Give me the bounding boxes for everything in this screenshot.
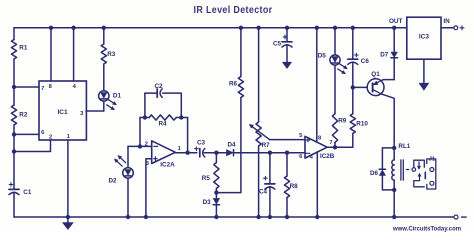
wire pin8 IC2B [316,28,318,142]
wire relay bottom to rail [393,190,395,217]
wire C5 to ground arrow [286,45,288,63]
svg-text:Q1: Q1 [371,71,380,78]
wire IC3 ground [423,59,425,83]
diode D7 [380,51,397,58]
wire pin8 [50,28,52,81]
node D2 ground [126,215,130,219]
wire D2 to ground rail [127,178,129,217]
wire left rail upper [13,28,15,40]
ground arrow IC3 [419,83,429,90]
relay NC contact [430,168,434,172]
ground arrow C5 [283,62,292,68]
node C4 top [268,151,272,155]
wire rail to C6 [352,28,354,59]
wire pin2 [14,140,51,152]
svg-text:C1: C1 [23,189,32,196]
svg-text:R4: R4 [158,120,167,127]
svg-text:C5: C5 [273,40,282,47]
capacitor C2 [154,83,163,97]
relay coil RL1 [392,160,403,180]
svg-text:7: 7 [329,140,332,146]
wire pin4 IC2B [316,152,318,217]
wire rail to R3 [103,28,105,44]
node pin1 ground [66,215,70,219]
LED D1 [99,91,122,101]
node C5 rail [285,26,289,30]
svg-text:R7: R7 [262,142,271,149]
wire R10 to node [335,134,353,148]
title [194,5,273,16]
wire D4 to IC2B pin6 [234,152,306,154]
wire D6 branch bottom [382,176,394,190]
LED D2 arrows [114,156,125,167]
svg-text:7: 7 [41,86,44,92]
diode D6 [370,169,386,177]
svg-text:IN: IN [443,18,450,25]
wire bottom ground rail [14,216,454,218]
svg-text:R2: R2 [19,112,28,119]
node R4 right [179,115,183,119]
node R4 left [143,115,147,119]
wire pin3 to ground [146,159,152,217]
relay common contact [412,168,416,172]
pin 2 label IC2A [145,142,148,148]
relay contact bracket [427,159,436,189]
node D5 rail [333,26,337,30]
LED D1 arrows [107,100,117,110]
pin 6 label [41,130,45,136]
diode D3 [203,198,220,205]
wire emitter to D7 [381,80,394,81]
node R8 ground [285,215,289,219]
node R3 rail [102,26,106,30]
node R7 ground [256,215,260,219]
capacitor C3 [195,139,206,157]
op-amp IC2B [305,136,335,160]
svg-text:D5: D5 [318,53,327,60]
pin 8 label [318,135,322,141]
wire rail to C5 [286,28,288,42]
capacitor C6 [348,53,370,65]
svg-text:www.CircuitsToday.com: www.CircuitsToday.com [392,225,461,232]
wire rail to R6 [240,28,242,77]
R7 wiper arrow [249,124,269,139]
OUT label [389,18,403,25]
wire pin7 [14,86,39,88]
wire C2 branch left [145,92,157,94]
wire C6 to R10 [352,62,354,114]
resistor R5 [202,163,219,189]
svg-text:D6: D6 [370,170,379,177]
svg-text:D2: D2 [109,178,118,185]
wire R8 to ground [286,198,288,218]
wire base [353,86,367,88]
node OUT junction [392,26,396,30]
wire R1 to R2 [13,59,15,105]
wire pin2 net to D2 [128,145,152,147]
transistor Q1 [367,71,384,96]
resistor R8 [284,176,298,198]
op-amp IC2A [152,141,176,169]
pin 7 label [41,86,44,92]
node feedback-output [185,151,189,155]
svg-text:R3: R3 [107,51,116,58]
capacitor C4 [259,176,275,195]
svg-text:C6: C6 [361,58,370,65]
wire collector down [381,94,394,148]
resistor R3 [101,44,116,64]
svg-text:R1: R1 [19,45,28,52]
node C4 ground [268,215,272,219]
node R7 rail [256,26,260,30]
pin 7 label IC2B [329,140,332,146]
wire R6 down [216,98,241,193]
node pin4 ground [315,215,319,219]
pin 2 label [49,135,52,141]
svg-text:D3: D3 [203,199,212,206]
relay contact bar [424,172,426,178]
wire IC2B output [327,146,335,148]
pin 1 label IC2A [178,146,182,152]
node output7 [333,145,337,149]
svg-text:IC1: IC1 [57,109,68,116]
wire C3 to D4 [204,152,226,154]
wire R7 to ground [258,146,260,217]
svg-text:2: 2 [145,142,148,148]
wire D7 to emitter [393,58,395,79]
wire rail to D5 [334,28,336,55]
wire pin3 IC1 [86,110,104,112]
potentiometer R7 [256,122,270,149]
website label [392,225,461,232]
terminal minus output [454,215,466,219]
wire pin6 [14,133,39,135]
resistor R6 [229,77,244,98]
resistor R9 [332,114,346,143]
relay arrow down [418,162,421,169]
pin 4 label IC2B [310,155,314,161]
resistor R10 [350,114,368,134]
wire coil to bottom node [393,180,395,190]
relay armature upper [414,160,425,167]
photodiode D2 [109,168,134,185]
node relay bottom [392,188,396,192]
wire feedback left vertical [140,93,145,146]
wire R5 drop [215,153,217,163]
node pin6 junction [12,132,16,136]
relay NO contact [430,181,434,185]
wire C1 to bottom rail [13,192,15,217]
node C6 rail [351,26,355,30]
svg-text:R8: R8 [290,183,299,190]
node feedback-pin2 [138,144,142,148]
capacitor C5 [273,35,292,47]
pin 1 label [67,134,71,140]
node R8 top [285,151,289,155]
op-amp U IC1 box [39,81,86,140]
svg-text:R6: R6 [229,80,238,87]
wire top supply rail [14,27,394,29]
node IC2B pin8 rail [315,26,319,30]
wire R8 drop [286,153,288,176]
resistor R2 [11,105,27,125]
svg-text:D7: D7 [380,51,389,58]
wire OUT to IC3 [394,27,407,29]
resistor R1 [11,40,27,60]
svg-text:IC2A: IC2A [160,162,175,169]
svg-text:R5: R5 [202,175,211,182]
relay arrow up [418,173,421,180]
wire R9 to node [334,142,336,147]
svg-text:D4: D4 [227,142,236,149]
relay RL1 label [398,143,410,150]
pin 5 label [299,133,303,139]
wire D6 branch top [382,148,394,169]
ground arrow below pin1 [63,217,74,230]
svg-text:C4: C4 [259,188,268,195]
wire wiper to pin5 [270,139,305,141]
wire relay top to coil [393,148,395,160]
capacitor C1 [9,183,32,196]
wire D5 to R9 [334,65,336,114]
wire pin1 [67,140,69,217]
voltage regulator IC3 [407,17,441,59]
wire rail to R7 [258,28,260,122]
node R5 top [214,151,218,155]
relay linkage dash [406,169,409,171]
svg-text:RL1: RL1 [398,143,410,150]
svg-text:C3: C3 [197,139,206,146]
diode D4 [227,142,237,156]
wire rail stub to D7 [393,28,395,52]
wire R2 to C1 [13,125,15,189]
svg-text:C2: C2 [154,83,163,90]
wire R3 to D1 [103,64,105,91]
wire D2 drop [127,146,129,167]
node pin3 ground [144,215,148,219]
J1 label [429,156,436,162]
wire feedback right vertical [187,118,189,153]
svg-text:IC3: IC3 [419,34,430,41]
svg-text:D1: D1 [113,92,122,99]
wire D1 to pin3 [103,101,105,111]
wire R5 to D3 [215,189,217,199]
node relay ground [392,215,396,219]
wire C4 drop [269,153,271,184]
node pin8 rail [49,26,53,30]
LED D5 [318,53,340,65]
wire IC3 to input terminal [441,27,454,29]
svg-text:R9: R9 [338,117,347,124]
node Q1 base junction [351,85,355,89]
wire D3 to ground [215,205,217,217]
node pin4 rail [71,26,75,30]
LED D5 arrows [338,64,348,74]
svg-text:OUT: OUT [389,18,403,25]
node pin7 junction [12,85,16,89]
pin 3 label IC2A [146,161,150,167]
terminal plus input [454,26,464,30]
IN label [443,18,450,25]
svg-text:IC2B: IC2B [320,153,335,160]
node pin2 junction [12,149,16,153]
wire pin4 [73,28,75,81]
wire IC2A output [175,152,197,154]
node D3 ground [214,215,218,219]
svg-text:IR Level Detector: IR Level Detector [194,5,273,16]
node relay top [392,146,396,150]
node R6 rail [239,26,243,30]
wire C4 to ground [269,187,271,217]
wire C2 branch right [163,93,182,117]
resistor R4 [140,115,188,128]
node R5-D3-R6 [214,190,218,194]
relay armature lower [414,181,425,187]
pin 6 label IC2B [299,154,303,160]
svg-text:J1: J1 [429,156,436,162]
svg-text:R10: R10 [356,120,368,127]
pin 8 label [49,84,53,90]
pin 3 label [80,111,84,117]
pin 4 label [73,84,77,90]
